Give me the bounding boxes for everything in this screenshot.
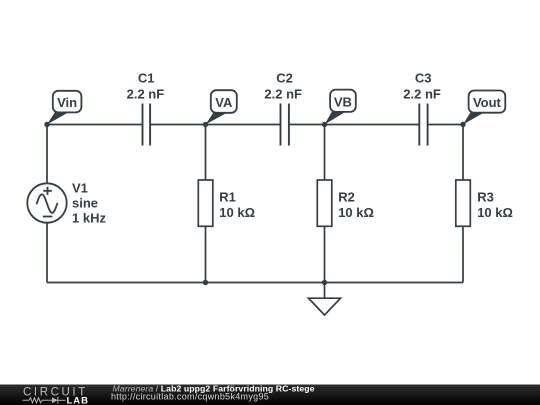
svg-text:C1: C1 (138, 70, 155, 85)
svg-text:sine: sine (72, 196, 98, 211)
svg-text:10 kΩ: 10 kΩ (219, 205, 255, 220)
svg-text:2.2 nF: 2.2 nF (403, 86, 441, 101)
svg-text:Vin: Vin (57, 95, 77, 110)
svg-text:R3: R3 (477, 190, 494, 205)
svg-text:Vout: Vout (473, 95, 502, 110)
svg-text:http://circuitlab.com/cqwnb5k4: http://circuitlab.com/cqwnb5k4myg95 (111, 391, 269, 401)
svg-text:V1: V1 (72, 181, 88, 196)
svg-text:C2: C2 (276, 70, 293, 85)
svg-text:R1: R1 (219, 190, 236, 205)
svg-text:10 kΩ: 10 kΩ (338, 205, 374, 220)
svg-text:C3: C3 (415, 70, 432, 85)
svg-text:1 kHz: 1 kHz (72, 211, 106, 226)
svg-text:VB: VB (334, 95, 352, 110)
svg-text:LAB: LAB (67, 395, 90, 405)
svg-text:2.2 nF: 2.2 nF (127, 86, 165, 101)
svg-text:VA: VA (215, 95, 233, 110)
svg-text:R2: R2 (338, 190, 355, 205)
svg-text:10 kΩ: 10 kΩ (477, 205, 513, 220)
svg-text:2.2 nF: 2.2 nF (264, 86, 302, 101)
